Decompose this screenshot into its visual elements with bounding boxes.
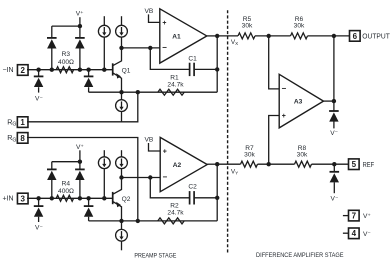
svg-text:30k: 30k [297, 152, 308, 159]
OUTPUT label [362, 32, 390, 41]
V- label under D5 [35, 224, 43, 231]
node C2 / output vertical [215, 196, 219, 200]
resistor R8 30k [295, 161, 312, 167]
svg-text:A2: A2 [173, 162, 182, 169]
svg-text:+IN: +IN [2, 196, 13, 203]
svg-text:R1: R1 [170, 74, 179, 81]
svg-text:V⁻: V⁻ [330, 130, 338, 137]
pin 3 (+IN) label [2, 196, 13, 203]
V+ stub lower [79, 150, 81, 161]
node input / D6 [50, 196, 54, 200]
pin 1 box [17, 117, 28, 128]
svg-text:6: 6 [353, 32, 358, 41]
diode D6 to V+ rail (lower) [47, 162, 57, 199]
svg-text:−: − [162, 43, 167, 52]
wire Vy line [217, 163, 240, 165]
V- label under D10 [331, 195, 339, 202]
resistor R1 24.7k [158, 89, 184, 95]
node lower emitter line / RG riser [136, 219, 140, 223]
wire A3 output [324, 100, 334, 102]
node A3 output [332, 99, 336, 103]
diode D10 REF clamp to V- [330, 164, 340, 193]
pin 7 box [349, 210, 360, 221]
svg-text:30k: 30k [242, 23, 253, 30]
VB label upper [145, 8, 154, 15]
svg-text:−IN: −IN [2, 67, 13, 74]
wire R5/R6 junction to A3 minus [269, 36, 280, 89]
R8 value label [297, 152, 308, 159]
node minus / feedback [148, 46, 152, 50]
wire A3 output to Vx line [333, 36, 335, 101]
VB label lower [145, 137, 154, 144]
REF label [363, 160, 375, 169]
R6 label [295, 16, 304, 23]
current source I1 (upper left) [98, 16, 110, 69]
node input -IN / D1 [36, 68, 40, 72]
svg-text:400Ω: 400Ω [58, 59, 74, 66]
resistor R3 400ohm [56, 67, 73, 73]
svg-text:C2: C2 [188, 183, 197, 190]
wire A3 plus to R7/R8 junction [269, 116, 280, 165]
resistor R6 30k [291, 33, 308, 39]
wire VB to A2 plus [149, 143, 161, 151]
node input +IN / D5 [36, 196, 40, 200]
node input / D4 [86, 68, 90, 72]
transistor Q2 [113, 178, 122, 221]
wire +IN input line [27, 197, 113, 199]
wire Vx line [217, 35, 238, 37]
pin 5 box [349, 159, 360, 170]
wire collector to A1 minus [122, 47, 160, 49]
diode D5 to V- (lower) [34, 198, 44, 222]
current source I4 (lower left) [98, 150, 110, 198]
node input / current source I4 [102, 196, 106, 200]
R7 label [245, 145, 254, 152]
Q2 label [122, 196, 131, 203]
svg-text:V⁻: V⁻ [331, 195, 339, 202]
node input / D8 [86, 196, 90, 200]
tail current source I6 (lower) [116, 221, 128, 250]
stage separator dashed line [227, 10, 229, 253]
resistor R5 30k [238, 33, 255, 39]
R3 label [62, 51, 71, 58]
V- label pin 4 [363, 231, 371, 238]
node input / D2 [50, 68, 54, 72]
svg-text:C1: C1 [188, 55, 197, 62]
R4 label [62, 181, 71, 188]
current source I2 (upper right) [116, 16, 128, 48]
pin 8 box [17, 133, 28, 144]
diode D4 to emitter line (upper) [84, 70, 94, 93]
C1 label [188, 55, 197, 62]
node input / current source I1 [102, 68, 106, 72]
upper V+ clamp rail [52, 25, 80, 27]
DIFFERENCE AMPLIFIER STAGE caption [256, 252, 344, 259]
op-amp A1 [160, 9, 207, 63]
svg-text:7: 7 [352, 212, 357, 221]
diode D1 to V- (upper) [34, 70, 44, 93]
wire C2 to output vertical [194, 197, 217, 199]
svg-text:5: 5 [352, 160, 357, 169]
svg-text:REF: REF [363, 160, 375, 169]
node rail / stub [78, 24, 82, 28]
svg-text:R3: R3 [62, 51, 71, 58]
R7 value label [244, 152, 255, 159]
pin 2 (-IN) label [2, 67, 13, 74]
node R7/R8 junction [267, 162, 271, 166]
resistor R4 400ohm [56, 195, 73, 201]
svg-text:3: 3 [21, 194, 26, 203]
V+ stub upper [79, 17, 81, 26]
svg-text:V⁻: V⁻ [35, 224, 43, 231]
diode D2 to V+ rail (upper) [47, 26, 57, 70]
resistor R7 30k [241, 161, 258, 167]
capacitor C1 [190, 63, 195, 76]
R1 value label [167, 82, 184, 89]
svg-text:R2: R2 [170, 203, 179, 210]
R6 value label [294, 23, 305, 30]
pin 3 box [17, 193, 28, 204]
svg-text:DIFFERENCE AMPLIFIER STAGE: DIFFERENCE AMPLIFIER STAGE [256, 252, 344, 259]
svg-text:+: + [163, 148, 167, 155]
node collector Q1 / I2 [119, 46, 123, 50]
Vy node label [231, 168, 238, 175]
svg-text:30k: 30k [244, 152, 255, 159]
R5 value label [242, 23, 253, 30]
svg-text:30k: 30k [294, 23, 305, 30]
diode D8 to emitter line (lower) [84, 198, 94, 221]
R2 label [170, 203, 179, 210]
wire feedback drop C2 [150, 178, 189, 198]
node input / D3 [78, 68, 82, 72]
svg-text:OUTPUT: OUTPUT [362, 32, 390, 41]
svg-text:VB: VB [145, 8, 154, 15]
node emitter line / RG riser [136, 90, 140, 94]
node A1 output [215, 34, 219, 38]
Vx node label [231, 39, 238, 46]
transistor Q1 [113, 48, 122, 92]
node C1 / output vertical [215, 67, 219, 71]
node minus / feedback C2 [148, 175, 152, 179]
wire R5 to R6 [255, 35, 291, 37]
svg-text:A3: A3 [294, 98, 303, 105]
svg-text:V⁻: V⁻ [363, 231, 371, 238]
node lower rail / stub [78, 160, 82, 164]
node input / D7 [78, 196, 82, 200]
node collector Q2 / I5 [119, 175, 123, 179]
wire feedback drop C1 [150, 48, 189, 70]
wire A2 output vertical [216, 164, 218, 221]
wire A2 output [207, 163, 217, 165]
svg-text:VB: VB [145, 137, 154, 144]
wire R6 to output pin [308, 35, 350, 37]
node output / A3 branch [332, 34, 336, 38]
svg-text:Q2: Q2 [122, 196, 131, 203]
tail current source I3 (upper) [116, 92, 128, 122]
R2 value label [167, 210, 184, 217]
R3 value label [58, 59, 74, 66]
Q1 label [122, 67, 131, 74]
node REF / clamp diode [332, 162, 336, 166]
C2 label [188, 183, 197, 190]
wire pin 4 stub [343, 232, 349, 234]
wire R7 to R8 [258, 163, 295, 165]
svg-text:V⁺: V⁺ [363, 213, 371, 220]
svg-text:−: − [281, 84, 286, 93]
svg-text:V⁻: V⁻ [35, 96, 43, 103]
svg-text:PREAMP STAGE: PREAMP STAGE [134, 253, 176, 260]
svg-text:4: 4 [352, 229, 357, 238]
node emitter Q2 / tail source [119, 219, 123, 223]
svg-text:24.7k: 24.7k [167, 210, 184, 217]
svg-text:1: 1 [20, 118, 25, 127]
svg-text:400Ω: 400Ω [58, 188, 74, 195]
wire VB to A1 plus [149, 14, 160, 22]
svg-text:V⁺: V⁺ [76, 144, 84, 151]
diode D3 to V+ rail (upper) [75, 26, 85, 70]
wire -IN input line [27, 69, 113, 71]
diode D7 to V+ rail (lower) [75, 162, 85, 199]
wire collector to A2 minus [122, 177, 161, 179]
node emitter Q1 / tail source [119, 90, 123, 94]
pin 6 box [350, 31, 361, 42]
pin 2 box [17, 65, 28, 76]
wire pin 8 to lower emitter node [27, 138, 138, 221]
V+ label upper [76, 11, 84, 18]
V- label under D9 [330, 130, 338, 137]
node A2 output [215, 162, 219, 166]
R1 label [170, 74, 179, 81]
wire A1 output [207, 35, 217, 37]
wire A1 output vertical [216, 36, 218, 92]
svg-text:8: 8 [20, 134, 25, 143]
svg-text:A1: A1 [172, 33, 181, 40]
svg-text:24.7k: 24.7k [167, 82, 184, 89]
PREAMP STAGE caption [134, 253, 176, 260]
svg-text:Q1: Q1 [122, 67, 131, 74]
V+ label pin 7 [363, 213, 371, 220]
wire R8 to REF pin [312, 163, 349, 165]
svg-text:+: + [282, 113, 286, 120]
svg-text:−: − [162, 173, 167, 182]
wire pin 7 stub [343, 215, 349, 217]
current source I5 (lower right) [116, 150, 128, 177]
capacitor C2 [190, 191, 195, 204]
R5 label [243, 16, 252, 23]
svg-text:R4: R4 [62, 181, 71, 188]
V- label under D1 [35, 96, 43, 103]
wire emitter line [89, 91, 218, 93]
wire C1 to output vertical [194, 68, 217, 70]
RG label pin 1 [7, 117, 16, 127]
R4 value label [58, 188, 74, 195]
resistor R2 24.7k [158, 218, 184, 224]
RG label pin 8 [7, 133, 16, 143]
svg-text:V⁺: V⁺ [76, 11, 84, 18]
svg-text:+: + [162, 20, 166, 27]
lower V+ clamp rail [52, 161, 80, 163]
node R5/R6 junction [267, 34, 271, 38]
V+ label lower [76, 144, 84, 151]
svg-text:2: 2 [21, 66, 26, 75]
pin 4 box [349, 228, 360, 239]
op-amp A3 [279, 74, 323, 128]
wire pin 1 to emitter node [27, 92, 138, 122]
R8 label [298, 145, 307, 152]
wire lower emitter line [89, 220, 218, 222]
diode D9 output clamp to V- [329, 101, 339, 128]
op-amp A2 [160, 137, 207, 191]
